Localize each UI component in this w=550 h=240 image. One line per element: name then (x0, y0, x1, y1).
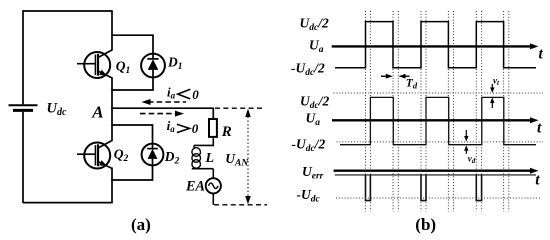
label t (plot 2) (537, 120, 542, 137)
dashed line bottom (node N level) (214, 204, 267, 206)
waveform plot 2: actual U_a with dead time (340, 97, 536, 144)
wire phase leg top (111, 10, 113, 50)
wire Q2 cell top (111, 125, 152, 144)
U_AN measurement arrow (dashed double arrow) (245, 109, 251, 205)
wire output from node A (111, 107, 214, 109)
label U_dc (47, 101, 67, 119)
svg-text:0: 0 (192, 121, 199, 136)
diode D2 (142, 144, 164, 166)
diode D1 (141, 54, 165, 78)
label v_t (493, 76, 500, 88)
label U_dc/2 (plot 2) (300, 94, 329, 112)
v_t marker (top gap, plot 2) (490, 84, 494, 108)
caption (b) (415, 215, 436, 234)
wire Q1 cell bottom (111, 77, 153, 91)
label Q1 (116, 58, 131, 76)
wire Q2 cell bottom (111, 165, 152, 181)
wire left rail upper (22, 10, 24, 104)
dotted reference line +U_dc/2 (plot 2) (334, 92, 544, 94)
dead time T_d marker arrows (381, 74, 410, 79)
label t (plot 1) (539, 45, 544, 62)
svg-text:L: L (205, 151, 215, 166)
label i_a<0 (167, 84, 199, 102)
wire bottom rail (23, 202, 112, 204)
wire left rail lower (22, 112, 24, 203)
label t (plot 3) (535, 172, 540, 189)
wire EA to bottom (212, 193, 214, 205)
wire D1 branch top (111, 35, 153, 54)
svg-text:t: t (537, 120, 542, 137)
axis t (plot 1, ideal U_a) (332, 43, 539, 49)
transistor Q1 (77, 50, 112, 78)
current arrow i_a>0 (dashed, pointing right) (140, 111, 184, 117)
label U_a (plot 1) (309, 37, 324, 55)
resistor R (209, 119, 217, 137)
svg-text:t: t (539, 45, 544, 62)
label i_a>0 (167, 118, 199, 136)
transistor Q2 (77, 140, 112, 168)
svg-text:(a): (a) (131, 215, 151, 234)
svg-text:(b): (b) (415, 215, 436, 234)
waveform plot 3: error voltage U_err zero line (335, 174, 536, 176)
wire phase leg middle (111, 78, 113, 142)
wire L to EA (212, 169, 214, 179)
label U_AN (225, 151, 249, 169)
label U_a (plot 2) (306, 111, 321, 129)
inductor L (192, 145, 214, 168)
axis t (plot 3) (334, 168, 539, 174)
caption (a) (131, 215, 151, 234)
label T_d (406, 77, 418, 90)
dotted reference line -U_dc (plot 3) (336, 197, 540, 199)
label -U_dc (plot 3) (297, 187, 321, 205)
dashed line top (node A level) (215, 107, 265, 109)
axis t (plot 2) (332, 117, 539, 123)
waveform plot 3: error pulses (366, 175, 482, 201)
svg-text:A: A (91, 103, 103, 122)
vertical dotted timing lines (366, 11, 509, 212)
wire R to L (194, 138, 213, 145)
waveform plot 1: ideal square wave U_a (335, 22, 536, 68)
label R (221, 124, 232, 140)
label v_d (468, 154, 476, 166)
label EA (185, 179, 205, 195)
svg-text:t: t (535, 172, 540, 189)
current arrow i_a<0 (dashed, pointing left) (142, 99, 187, 105)
label -U_dc/2 (plot 1) (291, 61, 325, 79)
wire load branch down to R (212, 108, 214, 119)
dotted reference line -U_dc/2 (plot 2) (337, 141, 544, 143)
label D2 (164, 149, 180, 167)
node A label (91, 103, 103, 122)
label Q2 (114, 147, 129, 165)
label -U_dc/2 (plot 2) (292, 136, 326, 154)
svg-text:R: R (221, 124, 232, 140)
label L (205, 151, 215, 166)
svg-text:EA: EA (185, 179, 205, 195)
label D1 (167, 54, 183, 72)
wire top rail (23, 10, 112, 12)
v_d marker (bottom gap, plot 2) (464, 130, 468, 154)
wire phase leg bottom (111, 168, 113, 204)
svg-text:0: 0 (192, 87, 199, 102)
source EA (sine) (206, 178, 221, 193)
label U_err (plot 3) (302, 164, 324, 182)
battery U_dc (9, 105, 38, 110)
label U_dc/2 (plot 1) (300, 16, 329, 34)
